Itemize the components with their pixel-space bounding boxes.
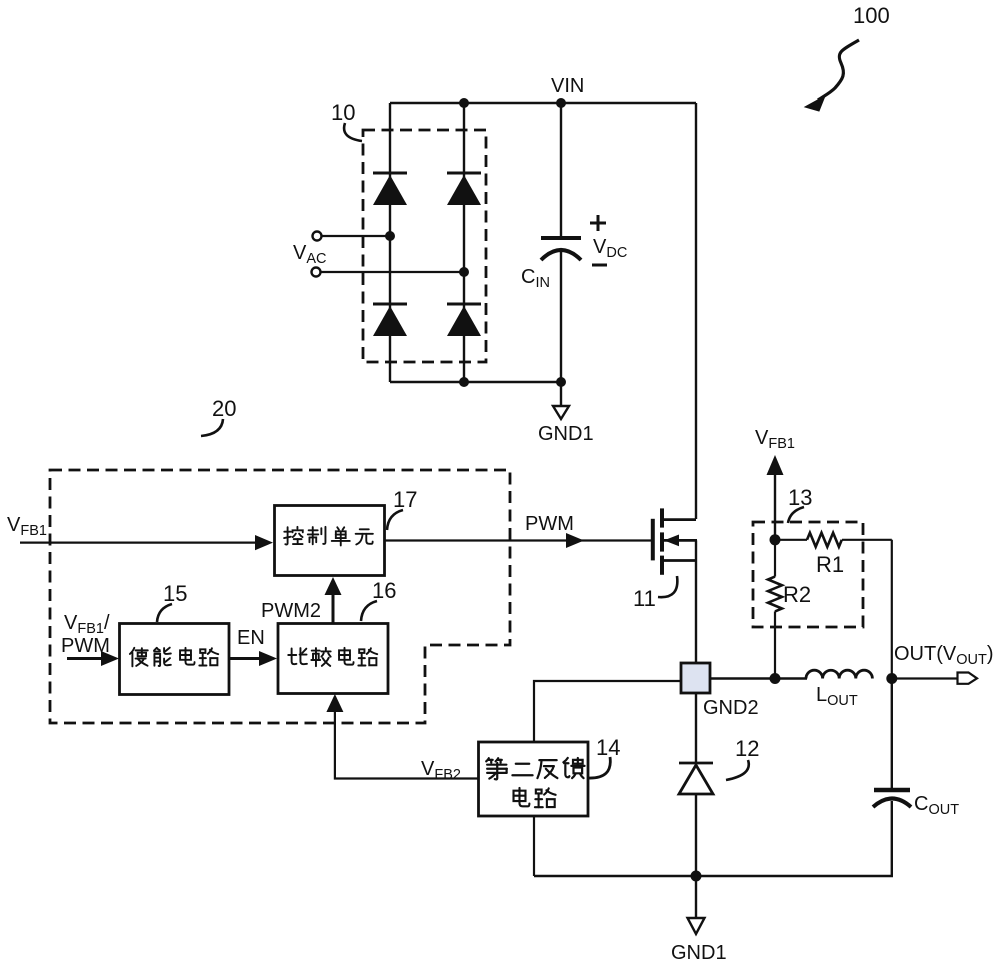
label R1 [816,552,844,577]
node dot feedback tap [770,673,781,684]
svg-text:14: 14 [596,735,620,760]
box control unit (17) [275,506,385,576]
svg-text:13: 13 [788,485,812,510]
label CIN [521,266,550,291]
wire MOSFET source down to GND2 [695,540,697,664]
svg-text:17: 17 [393,487,417,512]
label LOUT [816,684,858,709]
inductor LOUT [806,670,872,678]
label 17 with hook [387,487,417,530]
label R2 [783,582,811,607]
label 12 with hook [726,736,759,780]
wire GND2 right to inductor [710,677,807,679]
label VFB2 [421,758,461,783]
node dot right branch / VAC [459,267,469,277]
label PWM2 [261,600,321,622]
svg-text:GND1: GND1 [671,942,727,964]
resistor R1 [775,533,892,547]
label 13 with hook [788,485,812,523]
wire bridge left branch [389,103,391,382]
transistor Q 11 (power MOSFET) [653,508,697,574]
label 20 with hook [201,396,236,436]
box compare circuit (16) [278,624,388,694]
wire bridge bottom rail [390,381,561,383]
wire EN arrow into compare circuit [229,651,277,666]
box enable circuit (15) [120,624,230,695]
svg-text:15: 15 [163,581,187,606]
node dot top rail / right branch [459,98,469,108]
label 15 with hook [157,581,187,622]
wire R1 down to OUT node [891,540,893,679]
svg-text:11: 11 [633,586,656,611]
label 100 with leader arrow [805,3,890,111]
wire VIN top rail [390,102,696,104]
node dot divider top [770,534,781,545]
wire feedback box down to bottom rail [533,816,535,876]
capacitor COUT [873,679,911,877]
svg-text:PWM: PWM [525,513,574,535]
label VFB1 right top [755,427,795,452]
wire input arrow into enable circuit [67,651,119,666]
GND2 square node [681,663,710,693]
VAC lower terminal and wire [312,268,465,277]
node dot bottom rail left [459,377,469,387]
label VAC [293,242,327,267]
svg-text:10: 10 [331,100,355,125]
wire GND2 left to feedback drop [534,681,681,742]
node dot bottom rail [691,871,702,882]
label GND1 bottom [671,942,727,964]
node dot bottom rail CIN [556,377,566,387]
svg-text:PWM2: PWM2 [261,600,321,622]
ground GND1 top symbol [553,382,569,419]
node VIN junction [556,98,566,108]
ground GND1 bottom symbol [688,876,705,934]
svg-text:VIN: VIN [551,75,584,97]
diode top-right of bridge [447,173,481,205]
label 10 with hook [331,100,362,141]
svg-text:R2: R2 [783,582,811,607]
controller dashed box 20 (stepped outline) [50,470,510,723]
diode bottom-left of bridge [373,304,407,336]
label GND2 [703,697,759,719]
label 14 with hook [588,735,620,778]
svg-text:GND2: GND2 [703,697,759,719]
wire bridge right branch [463,103,465,382]
wire VFB1 up arrow from divider [767,455,784,540]
label plus sign VDC [590,215,606,231]
resistor R2 [768,540,782,679]
diode top-left of bridge [373,173,407,205]
svg-text:GND1: GND1 [538,423,594,445]
wire bottom rail [534,875,893,877]
wire VFB2 from compare circuit to feedback box [326,694,478,779]
wire PWM control unit to gate with mid arrowhead [385,533,653,548]
label VFB1 left [7,514,47,539]
node dot left branch / VAC [385,231,395,241]
label minus sign VDC [592,264,607,267]
label OUT(VOUT) [894,643,994,668]
wire VIN rail down to MOSFET drain [695,103,697,519]
box second feedback circuit (14) [479,742,589,816]
VAC upper terminal and wire [313,232,391,241]
label GND1 top [538,423,594,445]
wire PWM2 arrow compare to control unit [325,577,342,623]
bridge rectifier dashed box 10 [363,130,486,362]
svg-text:R1: R1 [816,552,844,577]
diode 12 (freewheeling) [679,693,713,876]
svg-text:16: 16 [372,578,396,603]
label COUT [914,793,959,818]
wire VFB1 into control unit with arrowhead [20,535,273,550]
diode bottom-right of bridge [447,304,481,336]
node dot OUT [886,673,897,684]
capacitor CIN [541,103,581,382]
label VDC [593,236,627,261]
label VFB1/PWM two lines [61,612,110,657]
svg-text:100: 100 [853,3,890,28]
label VIN [551,75,584,97]
svg-text:EN: EN [237,627,265,649]
label 16 with hook [361,578,396,621]
label EN [237,627,265,649]
divider dashed box 13 [753,522,863,627]
svg-text:12: 12 [735,736,759,761]
wire and open-arrow OUT terminal [892,673,977,684]
label 11 with hook [633,576,677,611]
label PWM [525,513,574,535]
svg-text:20: 20 [212,396,236,421]
